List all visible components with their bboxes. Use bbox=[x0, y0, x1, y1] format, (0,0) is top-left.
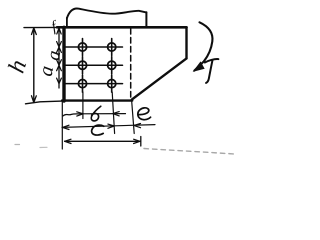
svg-text:h: h bbox=[4, 57, 32, 76]
wire: bolt row 3 centerline bbox=[64, 83, 123, 85]
wire: plate left edge extension below plate bbox=[61, 101, 63, 149]
arrow: tick at row1 bbox=[57, 42, 62, 53]
wire: plate bottom edge bbox=[62, 99, 132, 101]
arrow: bottom line right arrowhead bbox=[134, 139, 140, 143]
wire: bottom overall dimension line bbox=[65, 140, 140, 142]
bolt B3 (row2 col1) bbox=[78, 57, 86, 74]
wire: bolt col2 extension line below plate bbox=[112, 92, 114, 134]
svg-text:a: a bbox=[35, 64, 58, 78]
arrow: h bottom arrowhead bbox=[32, 96, 37, 103]
wire: plate left edge (thick, merged with column edge) bbox=[62, 27, 65, 101]
wire: bolt row 1 centerline bbox=[64, 46, 123, 48]
wire: plate slanted edge bbox=[132, 58, 187, 99]
wire: bottom extension line (left of plate, for h) bbox=[26, 101, 63, 104]
arrow: e arrowhead pointing left at corner line bbox=[134, 124, 141, 128]
wire: bolt row 2 centerline bbox=[64, 64, 123, 66]
arrow: tick at row3 bbox=[57, 78, 62, 84]
wire: column right edge (above plate) bbox=[145, 12, 147, 27]
wire: column left edge (above plate) bbox=[66, 18, 68, 28]
wire: plate top edge bbox=[57, 26, 187, 29]
arrow: b left arrowhead bbox=[77, 112, 83, 116]
arrow: b right arrowhead bbox=[113, 112, 119, 116]
wire: a-a-f dimension line bbox=[58, 28, 60, 88]
wire: faint dashed scan artifact line bottom right bbox=[144, 149, 235, 155]
arrow: torque T curved arrow bbox=[200, 22, 213, 61]
wire: c and e dimension line bbox=[62, 125, 155, 128]
wire: plate right vertical edge bbox=[185, 27, 187, 58]
wire: corner extension line below plate bbox=[132, 100, 135, 134]
arrow: bottom line left arrowhead bbox=[65, 139, 71, 143]
label c bbox=[92, 125, 104, 135]
label b bbox=[91, 106, 101, 121]
bolt B1 (row1 col1) bbox=[78, 39, 86, 56]
bolt B2 (row1 col2) bbox=[108, 39, 116, 56]
bolt B5 (row3 col1) bbox=[78, 75, 86, 92]
wire: top extension line (left of plate, for h) bbox=[24, 26, 63, 28]
arrow: h top arrowhead bbox=[32, 28, 37, 35]
bolt B6 (row3 col2) bbox=[108, 75, 116, 92]
wire: h dimension line bbox=[33, 30, 35, 102]
wire: faint speck 1 bbox=[15, 144, 20, 146]
arrow: c left arrowhead bbox=[63, 125, 70, 129]
wire: wavy break line at top of column bbox=[67, 8, 146, 18]
wire: tick at right end of bottom dimension line bbox=[140, 137, 142, 147]
arrow: c right arrowhead bbox=[108, 124, 114, 128]
arrow: tick at row2 bbox=[57, 60, 62, 71]
label e bbox=[138, 108, 151, 120]
wire: faint speck 2 bbox=[40, 146, 47, 148]
wire: bolt col1 extension line below plate bbox=[82, 92, 84, 119]
arrow: f top arrowhead bbox=[57, 28, 61, 34]
bolt B4 (row2 col2) bbox=[108, 57, 116, 74]
wire: b dimension line with squiggle bbox=[63, 114, 126, 116]
label T bbox=[205, 59, 219, 83]
svg-text:a: a bbox=[43, 49, 65, 62]
wire: dashed hidden edge of column behind plate bbox=[130, 29, 132, 98]
